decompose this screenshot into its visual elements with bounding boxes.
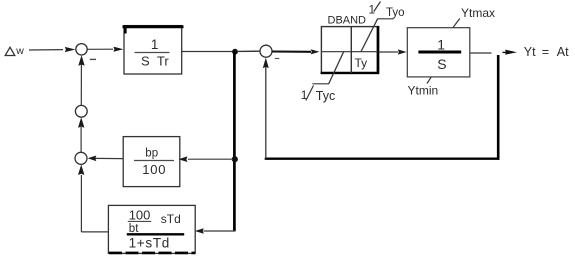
- integrator block 1/S with limits: [407, 28, 470, 77]
- svg-text:S Tr: S Tr: [141, 53, 169, 68]
- summing junction S1: [76, 44, 87, 55]
- wire feedback bottom run (thick): [265, 157, 500, 159]
- wire block1 output to junction A: [182, 51, 234, 53]
- svg-text:100: 100: [142, 162, 166, 177]
- summing junction S3 (middle): [75, 105, 87, 117]
- label Ytmax: [453, 6, 495, 28]
- svg-text:Tyo: Tyo: [386, 7, 405, 19]
- svg-text:1: 1: [151, 37, 159, 52]
- wire bp output to summer S4: [88, 156, 123, 162]
- svg-text:w: w: [15, 45, 24, 57]
- minus sign at S2: [275, 58, 280, 60]
- svg-text:DBAND: DBAND: [328, 14, 367, 26]
- svg-text:Yt: Yt: [524, 45, 536, 59]
- wire S2 to DBAND block: [272, 49, 319, 54]
- wire junction A down: thick droop feedback bus: [233, 52, 236, 232]
- summing junction S4 (bottom): [75, 152, 87, 164]
- svg-text:1: 1: [437, 37, 445, 53]
- wire sTd output to summer S4 (left then up): [78, 165, 108, 232]
- summing junction S2: [260, 45, 272, 57]
- wire S1 to block1: [87, 47, 123, 52]
- svg-text:1+sTd: 1+sTd: [129, 236, 170, 251]
- node Δw input label: [5, 47, 15, 55]
- rate slope line lower segment: [329, 52, 344, 84]
- wire DBAND to integrator: [380, 49, 407, 54]
- block bp/100 (permanent droop): [123, 137, 180, 187]
- deadband block DBAND (rate limit box with axes): [312, 19, 393, 84]
- minus sign at S1: [90, 58, 96, 60]
- svg-text:Ty: Ty: [355, 56, 368, 70]
- wire feedback from output: thick vertical drop: [497, 55, 500, 160]
- svg-text:sTd: sTd: [161, 212, 181, 226]
- wire junction B to bp block: [178, 156, 233, 162]
- label Ytmin: [408, 77, 439, 98]
- svg-text:At: At: [557, 45, 569, 59]
- label 1/Tyc: [301, 86, 335, 104]
- wire from Δw to summer S1: [29, 47, 75, 52]
- svg-text:100: 100: [129, 208, 151, 223]
- block transient droop (100/bt)·sTd/(1+sTd): [108, 205, 195, 253]
- svg-text:S: S: [437, 56, 446, 72]
- wire integrator output: [470, 52, 491, 54]
- output arrow and label Yt = At: [503, 45, 570, 59]
- node junction A: [232, 49, 238, 55]
- wire feedback up into S2: [263, 58, 269, 159]
- block U1 transfer 1/(S Tr): [123, 26, 184, 75]
- wire S3 up to S1: [78, 55, 84, 105]
- svg-text:Ytmax: Ytmax: [461, 6, 495, 20]
- rate slope line upper segment: [361, 19, 378, 52]
- wire S4 up to S3: [78, 117, 84, 152]
- label 1/Tyo: [369, 2, 405, 20]
- svg-text:Tyc: Tyc: [316, 89, 335, 103]
- svg-text:Ytmin: Ytmin: [408, 84, 439, 98]
- node junction B on bus: [232, 156, 238, 162]
- wire bus bottom to sTd block: [195, 228, 236, 234]
- wire junction A to summer S2: [237, 50, 260, 52]
- svg-text:bp: bp: [145, 147, 158, 159]
- svg-text:=: =: [542, 45, 549, 59]
